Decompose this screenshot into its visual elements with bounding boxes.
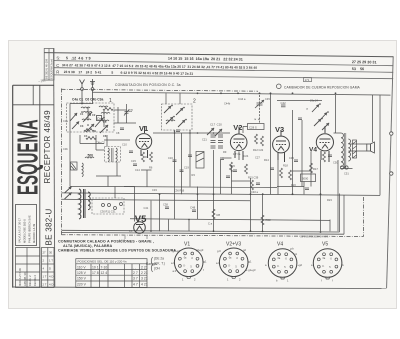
IFT2 box [196,152,204,169]
frame bottom edge [13,287,387,289]
svg-text:7-10: 7-10 [101,265,108,269]
wire B+ rail [62,193,381,196]
svg-text:4 21: 4 21 [141,282,148,286]
coil L1c [83,111,92,112]
cap C21 [188,155,192,157]
svg-text:C4a C1 C6 C4b C3a: C4a C1 C6 C4b C3a [72,98,103,102]
resistor R13 [261,136,264,146]
output transformer secondary [348,139,350,161]
wire mid rail ext [124,187,277,188]
svg-text:C35: C35 [289,156,294,160]
svg-text:CONMUTADOR CALEADO A POSICIONE: CONMUTADOR CALEADO A POSICIONES - GRAVE … [58,239,154,243]
edition box column left of table [44,49,54,81]
zigzag R1 [103,108,113,111]
junction dots wire133 [174,132,215,134]
bus right closure 2 [343,195,345,234]
resistor R4 [142,152,145,162]
resistor R18 [280,168,283,178]
switch arm S3 [86,124,94,132]
coil L2 [99,106,108,107]
wire y171 [293,170,312,172]
cap C49 [305,188,309,190]
tube V5 [134,222,146,234]
trimmer C7 [124,104,129,123]
table left edge [54,48,55,286]
cap stack right [218,135,223,148]
wire y158 [222,157,232,159]
resistor R2 [84,129,94,132]
wire top rail [93,92,391,95]
svg-text:27 25 29 30 31: 27 25 29 30 31 [352,60,377,64]
tube V3 [273,130,290,162]
wire AVC rail [62,199,251,201]
edition note below [42,79,54,81]
wire tone box down [303,182,305,195]
svg-text:R: R [56,70,59,75]
wire vert j [134,187,136,222]
switch arm S1c [72,122,79,130]
cap C19 [180,170,184,172]
switch arm S1b [70,113,77,121]
resistor R12 [255,134,258,144]
svg-text:C7: C7 [129,109,133,113]
svg-text:k·g1+g3: k·g1+g3 [246,268,256,272]
socket V1 outer labels [171,248,207,282]
tube V2 [230,127,247,160]
cap C46 [328,155,332,157]
svg-text:MODELO BE 382-U: MODELO BE 382-U [23,219,27,243]
wire gang cap vert [259,95,261,123]
coil L1 [81,107,90,108]
svg-text:C4: C4 [84,134,88,138]
switch arm S1 [83,113,91,122]
wire IFT drop [107,176,109,187]
svg-text:C19: C19 [184,166,189,170]
filter unit dashed box [92,198,124,214]
svg-text:R18: R18 [283,164,288,168]
wire box inner vert [117,107,119,123]
svg-text:30: 30 [49,251,53,255]
svg-text:V4: V4 [277,242,283,248]
cap C25 [233,170,237,172]
cap C34 [270,168,274,170]
svg-text:C38: C38 [163,203,168,207]
svg-text:MOD.A 27 5-49: MOD.A 27 5-49 [18,268,22,286]
svg-text:171: 171 [305,78,310,82]
svg-text:1 T 0a: 1 T 0a [233,152,241,156]
wire box to IFT [95,135,97,150]
svg-text:110 V: 110 V [77,265,86,269]
svg-text:R6: R6 [149,166,153,170]
svg-text:ESQUEMA: ESQUEMA [11,119,44,195]
svg-text:4 D: 4 D [49,283,53,287]
svg-text:VALVULAS 27 30-17: VALVULAS 27 30-17 [18,218,22,243]
wire under box [80,143,104,145]
wire right vert [379,95,381,195]
cap C23 [220,158,224,160]
voltage table rows [77,265,148,286]
field coil [353,140,357,158]
wire V4 plate to OT [334,132,342,134]
switch arm S2 [95,118,103,127]
tone cap box [301,174,316,182]
bus tick 2 [146,236,148,239]
wire vert V2 plate [242,127,244,134]
svg-text:0,1: 0,1 [129,229,133,233]
voltage table frame [76,259,147,288]
socket V5 outer labels [311,263,345,283]
svg-text:a·0: a·0 [171,261,175,265]
notes box text lines [18,215,36,243]
socket V4 outer labels [265,247,302,283]
tube V4 [316,126,333,162]
svg-text:C4b C2: C4b C2 [96,141,105,145]
svg-text:. .: . . [133,265,136,269]
earth symbol [90,79,95,104]
trimmer D box [97,116,102,121]
table line 2 [54,61,393,66]
svg-text:3 7: 3 7 [133,277,138,281]
socket V2V3 [219,248,248,278]
svg-text:×: × [306,107,308,111]
shield border top dash-dot [62,89,259,91]
phone jack [340,166,348,169]
coil L2c [101,112,110,113]
svg-text:C27: C27 [255,156,260,160]
svg-text:53 56: 53 56 [352,67,364,71]
resistor R21 cathode [323,152,326,162]
svg-text:C2: C2 [92,113,96,117]
svg-text:C16: C16 [168,156,173,160]
IFT1 core [112,148,114,162]
table line 4 [54,75,393,79]
svg-text:R8: R8 [217,213,221,217]
wire vert h [168,220,170,232]
notes box under ESQUEMA [16,205,37,246]
cap C15 [133,164,137,166]
osc switch arm 2 [65,193,72,200]
terminal top [390,132,393,135]
IFT1 secondary [116,148,117,162]
wire under IFT [96,175,121,177]
svg-text:g·0: g·0 [217,249,221,253]
svg-text:1 T: 1 T [49,259,53,263]
wire drop box2 a [165,93,167,104]
svg-text:C40 a: C40 a [251,190,258,194]
wire V4 cathode vert [320,160,322,231]
antenna symbol [80,80,85,104]
svg-text:DELIN. 2: DELIN. 2 [28,275,32,286]
cap C26 [226,176,230,178]
switch arm S6 [215,129,222,136]
shield border left dash-dot [61,89,63,235]
svg-text:2 7: 2 7 [133,271,138,275]
cap C13 [176,130,180,132]
resistor R17 [310,163,313,173]
switch arm S5 [207,128,214,135]
wafer 2 arms [164,106,185,127]
svg-text:V5: V5 [135,214,147,225]
svg-text:C36 R16: C36 R16 [174,189,185,193]
svg-text:C48: C48 [190,206,196,210]
osc switch arm [65,187,72,194]
svg-text:2: 2 [193,99,196,105]
wire vert i [197,187,199,220]
chassis bus line 1 [62,230,340,232]
cap C35 [294,160,298,162]
svg-text:C14: C14 [135,168,140,172]
revision table col A text [18,268,37,286]
resistor R8 [212,209,215,219]
svg-text:C1a: C1a [63,119,68,123]
wire vert x311 [310,152,312,187]
svg-text:C45: C45 [265,97,270,101]
svg-text:C33: C33 [152,188,157,192]
part number box [304,78,312,82]
svg-text:BE 382-U: BE 382-U [44,208,53,245]
svg-text:SE MIDE DESDE CHASIS: SE MIDE DESDE CHASIS [300,236,329,239]
wire OT bottom [341,168,353,170]
tube V1 [136,126,152,158]
switch arm S4 [100,125,108,133]
svg-text:V4: V4 [309,147,317,154]
wire vert x151 [150,201,152,232]
svg-text:V1: V1 [184,242,190,248]
svg-text:27: 27 [43,251,47,255]
title block header box [13,85,54,105]
svg-text:V5: V5 [322,242,328,248]
svg-text:g1+g4: g1+g4 [173,249,181,253]
wire top right second [277,100,322,102]
wire vert g [159,194,161,231]
wire V3 down [277,160,279,194]
bus tick 1 [124,236,126,239]
svg-text:C24: C24 [244,154,249,158]
svg-text:R4: R4 [145,155,149,159]
gang cap C42 [255,100,264,108]
parallel RC group [248,176,260,191]
svg-text:V2+V3: V2+V3 [226,242,241,248]
wire C47 drop [301,120,303,187]
svg-text:C: C [56,63,59,68]
speaker [367,142,375,153]
svg-text:FECHA 4: FECHA 4 [33,275,37,286]
svg-text:a·0: a·0 [173,269,177,273]
svg-text:PHILIPS IBERICA SAE: PHILIPS IBERICA SAE [28,215,32,243]
junction bus dots [150,230,321,233]
wire vert x338 [337,160,339,231]
IFT1 primary [108,148,109,162]
title block column divider [39,85,41,287]
wire under resistors [141,169,152,171]
svg-text:17 8: 17 8 [92,271,99,275]
socket V1 [174,248,203,278]
wire antenna drop [69,104,71,187]
wire vert under V2 [231,165,233,194]
svg-text:R15 C39: R15 C39 [248,176,259,180]
svg-text:(DE 2a: (DE 2a [154,257,164,261]
svg-text:APROB. 30: APROB. 30 [23,272,27,286]
svg-text:V1: V1 [139,124,148,133]
wire drop box2 b [179,93,181,104]
wire OT sec to speaker bot [349,150,367,152]
svg-text:C10: C10 [122,143,127,147]
bus right closure 1 [339,194,341,233]
svg-text:BE 382-U 40-109: BE 382-U 40-109 [45,58,49,79]
wire y186 right [277,186,304,188]
wire IFT left [96,149,105,151]
wire heater rail [130,219,330,221]
cap C48 [192,210,196,212]
svg-text:C6: C6 [103,134,107,138]
svg-text:C44 a: C44 a [238,97,246,101]
wafer3 arm 4 [322,123,329,130]
box C28 [248,124,265,130]
svg-text:V2: V2 [233,123,242,132]
svg-text:C30 R11 C31: C30 R11 C31 [100,210,116,214]
svg-text:1: 1 [109,98,112,104]
svg-text:150 V: 150 V [77,277,87,281]
wire IFT sec down [116,162,118,176]
svg-text:C26: C26 [230,164,235,168]
wire vert d [220,160,222,194]
svg-text:ALTA (MUSICA), PALABRA: ALTA (MUSICA), PALABRA [63,244,113,248]
revision table col B text [43,251,54,287]
wafer 3 arms [312,105,327,127]
wire heater right [329,220,331,232]
svg-text:ESQUEMA 2a ed: ESQUEMA 2a ed [49,58,53,79]
wafer 3 contacts [319,103,329,119]
wire vert e [250,178,252,231]
svg-text:R9: R9 [223,150,227,154]
svg-text:C3b: C3b [63,147,68,151]
svg-text:4 7: 4 7 [133,282,138,286]
svg-text:R17: R17 [313,167,318,171]
svg-text:R12 C22: R12 C22 [253,148,264,152]
wire V2 plate link [243,126,248,128]
wire vert f [262,194,264,231]
svg-text:1 T: 1 T [43,275,47,279]
svg-text:2 21: 2 21 [141,271,148,275]
resistor R11a [245,164,248,174]
title block top edge [13,84,54,86]
wire antenna link [70,103,93,105]
scan area edge [9,41,397,309]
output transformer primary [341,133,343,167]
resistor R10 [230,162,233,172]
svg-text:+g2: +g2 [298,263,303,267]
wire left mid [70,186,135,188]
resistor R5 [150,152,153,162]
wire box right to C7 [114,109,127,111]
socket V2V3 outer labels [216,248,256,282]
svg-text:C a: C a [208,222,213,226]
cap stack left [211,135,216,148]
IF transformer T1 box [105,147,121,163]
svg-text:CAMBIASE VISIBLE V5/9 DESDE LO: CAMBIASE VISIBLE V5/9 DESDE LOS PUNTOS D… [58,249,176,253]
wire V1 to V2 [153,132,230,134]
svg-text:C17 C20: C17 C20 [210,123,222,127]
svg-text:C3: C3 [80,124,84,128]
svg-text:(OH: (OH [154,267,161,271]
wire mid vert b [292,110,294,194]
coil L1b [82,119,91,120]
filter unit pins [102,203,123,210]
svg-text:C51: C51 [344,172,349,176]
resistor R22 [261,215,264,225]
cap C38 [165,207,169,209]
wire short top [114,187,116,199]
socket V5 [313,249,342,279]
svg-text:g2+g3: g2+g3 [196,248,204,252]
band switch coil box [67,103,115,132]
svg-text:R3: R3 [192,173,196,177]
coil L3 [85,157,94,158]
heater drop sockets [188,220,190,232]
junction dots top rail [174,92,337,131]
wire vert wafer2 b [181,133,183,194]
output transformer core [344,133,346,168]
oscillator coil [79,189,90,219]
cap C47 [298,118,302,120]
wire grid V1 [114,122,137,124]
svg-text:R23: R23 [327,198,332,202]
dial lamp circle [277,84,282,89]
coil in box2 [166,120,175,121]
tensiones text [146,257,165,271]
svg-text:C42: C42 [281,101,287,105]
chassis bus line 2 [62,233,345,235]
frame top edge / table top line [44,53,393,57]
terminal bottom [390,172,393,175]
svg-text:C50: C50 [333,161,338,165]
svg-text:12 4: 12 4 [101,271,108,275]
coil cluster labels [80,112,107,138]
svg-text:125 V: 125 V [77,271,87,275]
wire OT sec to speaker top [349,143,367,145]
wafer 2 box [162,104,193,130]
svg-text:C15: C15 [131,159,136,163]
revision table col B [42,248,55,288]
cap C12 [129,151,133,153]
cathode V2 drop [238,152,240,161]
svg-text:10 1: 10 1 [92,265,99,269]
svg-text:V3: V3 [275,125,284,134]
svg-text:CONMUTACION EN POSICION O.C. 3: CONMUTACION EN POSICION O.C. 3a [115,83,181,87]
svg-text:POSICIONES SEL. DE 110 y 220 V: POSICIONES SEL. DE 110 y 220 Vs [78,260,128,264]
svg-text:S:: S: [56,56,60,61]
bus right closure dash-dot [363,197,365,237]
svg-text:D: D [49,267,51,271]
title block outer left edge [12,85,14,287]
wire speaker top [372,95,374,142]
electrolytic C2 [71,162,78,170]
wire drop x147 [146,170,148,187]
svg-text:g·b: g·b [290,247,294,251]
svg-text:MADRID 1-4-49: MADRID 1-4-49 [32,223,36,243]
svg-text:C28 S: C28 S [249,125,257,129]
wafer 2 contacts [171,105,187,121]
socket V4 [268,249,297,279]
svg-text:D: D [97,117,100,121]
cap C16 [173,160,177,162]
coil taps dots [81,111,108,132]
chassis bus dash-dot [62,235,364,237]
coil L2b [100,120,109,121]
svg-text:C41: C41 [144,206,149,210]
junction antenna [81,103,83,105]
wire mid vert a [335,95,337,133]
